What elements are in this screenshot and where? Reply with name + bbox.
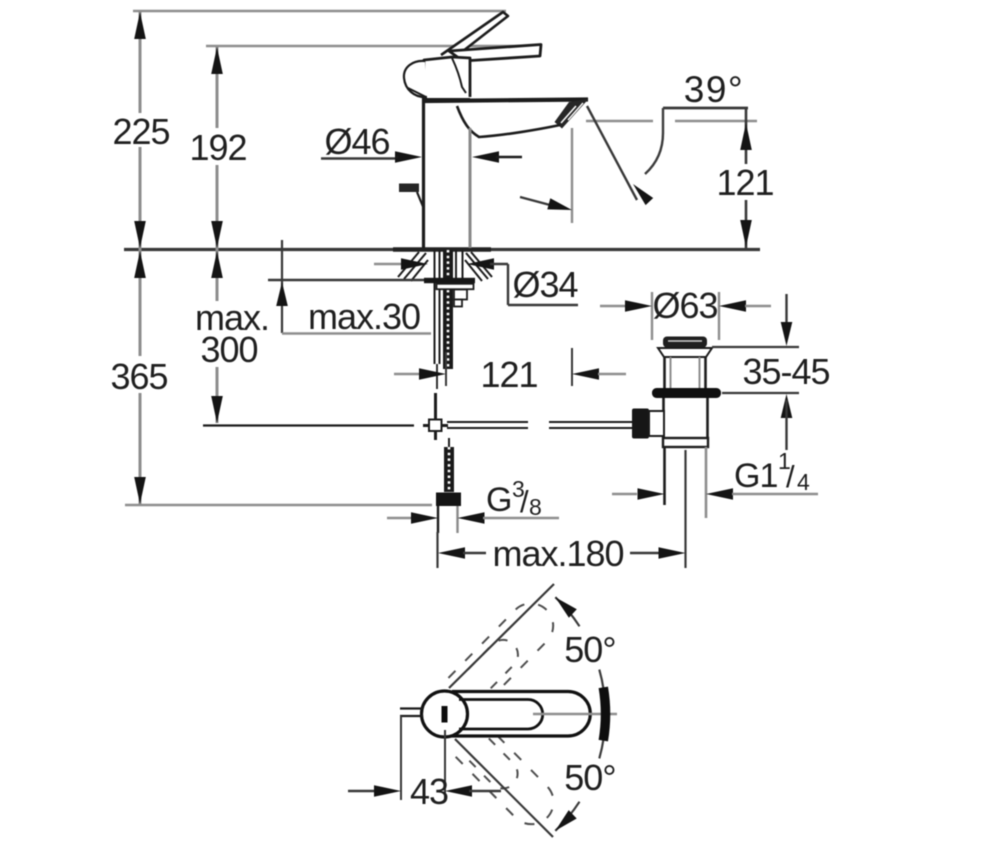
drain neck inner right bbox=[699, 357, 701, 389]
G3/8 threaded pipe bbox=[444, 447, 454, 492]
pull rod lower bbox=[436, 364, 438, 389]
mounting flange bbox=[424, 278, 475, 283]
drain cap flare bbox=[658, 348, 712, 357]
tail O63 left bbox=[600, 305, 626, 307]
svg-text:39°: 39° bbox=[684, 69, 744, 110]
tube left edge bbox=[437, 506, 439, 533]
arc 50 upper seg2 bbox=[599, 670, 603, 691]
drain side knob bbox=[632, 409, 649, 439]
aerator hatch bbox=[561, 106, 576, 123]
arrow 35-45 bottom bbox=[781, 394, 793, 418]
arrow 225 bottom bbox=[134, 221, 146, 248]
witness max180 left bbox=[436, 532, 438, 568]
arrow 39deg leader bbox=[633, 184, 653, 205]
svg-text:Ø34: Ø34 bbox=[512, 264, 577, 305]
tube right edge bbox=[456, 506, 458, 533]
tee vertical bbox=[434, 393, 437, 440]
rod horizontal right top b bbox=[549, 421, 632, 423]
rod horizontal right top a bbox=[447, 421, 528, 423]
closed lever blade bbox=[449, 45, 541, 62]
arrow O46 right bbox=[472, 151, 499, 163]
spout underside curve bbox=[457, 106, 560, 137]
svg-text:43: 43 bbox=[410, 771, 448, 812]
arrow G114 left bbox=[638, 488, 665, 500]
dim line 121r lower bbox=[745, 200, 748, 249]
tail O34 left bbox=[374, 263, 403, 265]
tee horizontal bbox=[423, 424, 448, 427]
body left edge bbox=[422, 98, 425, 248]
arrow O63 left bbox=[625, 300, 652, 312]
arrow 121c right bbox=[572, 368, 599, 380]
dashed lever rotated down bbox=[449, 719, 563, 834]
arrow max300 bottom bbox=[211, 396, 223, 423]
rod horizontal left bbox=[203, 424, 414, 426]
left washer hatch 3 bbox=[411, 260, 428, 281]
dim line 192 lower bbox=[216, 165, 219, 301]
svg-text:121: 121 bbox=[480, 354, 537, 395]
arrow max180 left bbox=[438, 547, 465, 559]
39deg leader arc bbox=[645, 108, 663, 174]
witness 121c left bbox=[445, 352, 447, 386]
witness line outlet center upper bbox=[571, 128, 573, 223]
svg-text:max.180: max.180 bbox=[492, 533, 623, 574]
bracket step 1 bbox=[454, 290, 467, 300]
svg-text:4: 4 bbox=[797, 469, 810, 495]
O34 bracket horizontal bbox=[490, 263, 508, 265]
knuckle end cap bbox=[404, 61, 427, 97]
drain neck right bbox=[704, 357, 707, 389]
handle pivot circle bbox=[422, 691, 468, 737]
knuckle cap seam bbox=[408, 88, 426, 97]
pull rod right line bbox=[439, 250, 441, 364]
handle knuckle bbox=[424, 57, 470, 98]
arrow G38 left bbox=[411, 512, 438, 524]
right washer hatch 1 bbox=[471, 252, 492, 277]
ref line outlet level b bbox=[675, 120, 757, 123]
G3/8 nut bbox=[436, 493, 461, 507]
arrow max180 right bbox=[659, 547, 686, 559]
rod horizontal right bottom b bbox=[549, 427, 632, 429]
arrow 121c left bbox=[419, 368, 446, 380]
tail O46 right bbox=[496, 156, 522, 158]
svg-text:8: 8 bbox=[529, 494, 542, 520]
arrow 192 top bbox=[211, 47, 223, 74]
dim line 35-45 upper bbox=[785, 294, 787, 340]
tailpipe right edge bbox=[705, 447, 708, 518]
svg-text:50°: 50° bbox=[564, 629, 615, 670]
svg-text:/: / bbox=[786, 459, 795, 494]
arc 50 lower seg1 bbox=[599, 738, 603, 759]
drain rim bbox=[663, 438, 708, 447]
arrow max300 top bbox=[211, 251, 223, 278]
arc 50 upper seg1 bbox=[555, 597, 579, 626]
faucet base on counter bbox=[393, 247, 491, 252]
drain neck left bbox=[663, 357, 666, 389]
drain knob step bbox=[649, 411, 664, 436]
body right edge bbox=[469, 128, 472, 248]
underline max30 bbox=[282, 332, 431, 334]
drain neck inner left bbox=[670, 357, 672, 389]
shank thread dots bbox=[447, 250, 450, 369]
witness O63 left bbox=[651, 292, 653, 340]
arrow 192 bottom bbox=[211, 221, 223, 248]
dim line 225 upper bbox=[139, 11, 142, 113]
arc arrow bar at centerline bbox=[603, 687, 605, 740]
aerator hatch 2 bbox=[568, 103, 583, 120]
svg-text:121: 121 bbox=[716, 162, 773, 203]
39deg leader bar bbox=[663, 107, 748, 110]
tailpipe centerline bbox=[684, 450, 686, 568]
raised lever outline bbox=[441, 12, 508, 58]
svg-text:300: 300 bbox=[200, 329, 257, 370]
underline O46 bbox=[321, 157, 396, 159]
ref line 35-45 bottom bbox=[722, 392, 799, 394]
svg-text:G: G bbox=[486, 481, 511, 519]
handle outer capsule bbox=[452, 692, 590, 737]
svg-text:G1: G1 bbox=[734, 457, 777, 495]
svg-text:Ø63: Ø63 bbox=[652, 285, 717, 326]
arrow arc down outer bbox=[555, 810, 576, 831]
witness 43 left bbox=[400, 716, 402, 800]
svg-text:365: 365 bbox=[110, 356, 167, 397]
tail G114 left bbox=[612, 493, 637, 495]
O34 bracket underline bbox=[508, 304, 578, 306]
tee box bbox=[429, 420, 442, 432]
tailpipe left edge bbox=[663, 447, 666, 505]
left washer hatch 1 bbox=[398, 252, 419, 277]
dashed lever rotated up bbox=[448, 594, 562, 709]
arrow G114 right bbox=[706, 488, 733, 500]
handle centerline bbox=[533, 713, 617, 716]
drain body right bbox=[706, 398, 709, 441]
tail O63 right bbox=[745, 305, 771, 307]
svg-text:/: / bbox=[520, 484, 529, 519]
ray +50 bbox=[449, 584, 554, 688]
mounting nut bbox=[437, 284, 474, 289]
svg-text:192: 192 bbox=[189, 127, 246, 168]
drain cap highlight bbox=[668, 340, 702, 342]
pull-rod knob bbox=[399, 184, 419, 193]
dim line 121r upper bbox=[745, 108, 748, 164]
dim ref line top of lever (225) bbox=[133, 10, 506, 13]
body top joint bbox=[423, 98, 470, 102]
arrow 121r bottom bbox=[740, 220, 752, 247]
arrow O63 right bbox=[719, 300, 746, 312]
arrow leader outlet bbox=[547, 198, 572, 210]
pipe stub bbox=[448, 438, 450, 447]
witness 43 right bbox=[444, 730, 446, 800]
dim line 35-45 lower bbox=[785, 400, 787, 450]
svg-text:max.30: max.30 bbox=[308, 296, 420, 337]
rod horizontal right bottom a bbox=[447, 427, 528, 429]
ray -50 bbox=[455, 739, 553, 837]
stub line b bbox=[400, 715, 423, 717]
tail max180 left bbox=[463, 552, 486, 554]
arc 50 lower seg2 bbox=[555, 802, 579, 831]
dim line max30 bbox=[281, 240, 283, 333]
svg-text:35-45: 35-45 bbox=[742, 351, 829, 392]
svg-text:50°: 50° bbox=[564, 757, 615, 798]
arrow O46 left bbox=[395, 151, 422, 163]
arrow max30 bbox=[276, 282, 288, 306]
hose line b bbox=[462, 250, 464, 279]
tail max180 right bbox=[630, 552, 660, 554]
ref line under-counter plate bbox=[268, 279, 424, 281]
svg-text:Ø46: Ø46 bbox=[324, 121, 389, 162]
witness O63 right bbox=[718, 292, 720, 340]
drain o-ring bbox=[652, 388, 721, 398]
pull-rod knob stem bbox=[417, 192, 424, 209]
witness 121c right bbox=[571, 348, 573, 386]
arrow 35-45 top bbox=[781, 322, 793, 346]
arrow 225 top bbox=[134, 12, 146, 39]
ref line outlet level a bbox=[586, 120, 653, 123]
drain body left bbox=[662, 398, 665, 441]
left washer hatch 2 bbox=[404, 253, 426, 279]
leader to outlet bbox=[520, 197, 550, 205]
arrow 365 top bbox=[134, 251, 146, 278]
dim line max300 lower bbox=[216, 367, 219, 423]
hose line a bbox=[455, 250, 457, 279]
ref line 365 bottom bbox=[125, 504, 432, 507]
pull rod left line bbox=[434, 250, 436, 364]
G3/8 thread dots bbox=[448, 447, 451, 492]
right washer hatch 2 bbox=[466, 253, 488, 279]
arrow 121r top bbox=[740, 123, 752, 150]
right washer hatch 3 bbox=[465, 260, 482, 281]
arrow 365 bottom bbox=[134, 477, 146, 504]
pivot pin bbox=[442, 706, 448, 723]
counter line bbox=[124, 248, 760, 251]
O34 bracket vertical bbox=[507, 264, 509, 305]
spout top edge bbox=[423, 100, 588, 102]
tail G38 right bbox=[483, 517, 559, 519]
dim line 365 lower bbox=[139, 393, 142, 505]
dim line 225/365 middle bbox=[139, 147, 142, 356]
ref line 35-45 top bbox=[712, 346, 799, 348]
tail 43 left bbox=[348, 790, 377, 792]
arrow 43 left bbox=[374, 785, 401, 797]
handle inner capsule bbox=[459, 700, 543, 730]
tail 43 right bbox=[469, 790, 501, 792]
arrow 43 right bbox=[445, 785, 472, 797]
arrow G38 right bbox=[458, 512, 485, 524]
tail 121c right bbox=[598, 373, 626, 375]
water stream line bbox=[587, 106, 637, 200]
bracket step 2 bbox=[454, 300, 462, 307]
tail G114 right bbox=[732, 493, 818, 495]
threaded shank bbox=[443, 250, 453, 369]
knuckle seam curve bbox=[452, 58, 466, 93]
dim line 192 upper bbox=[216, 46, 219, 128]
tail G38 left bbox=[387, 517, 413, 519]
dim ref line top of closed lever (192) bbox=[206, 45, 541, 48]
svg-text:225: 225 bbox=[112, 111, 169, 152]
drain cap top bbox=[663, 337, 707, 348]
spout tip aerator wedge bbox=[555, 99, 589, 129]
arrow O34 left bbox=[401, 258, 428, 270]
arrow O34 right bbox=[467, 258, 494, 270]
tail 121c left bbox=[394, 373, 423, 375]
stub line a bbox=[400, 707, 423, 709]
arrow arc up outer bbox=[555, 597, 577, 618]
